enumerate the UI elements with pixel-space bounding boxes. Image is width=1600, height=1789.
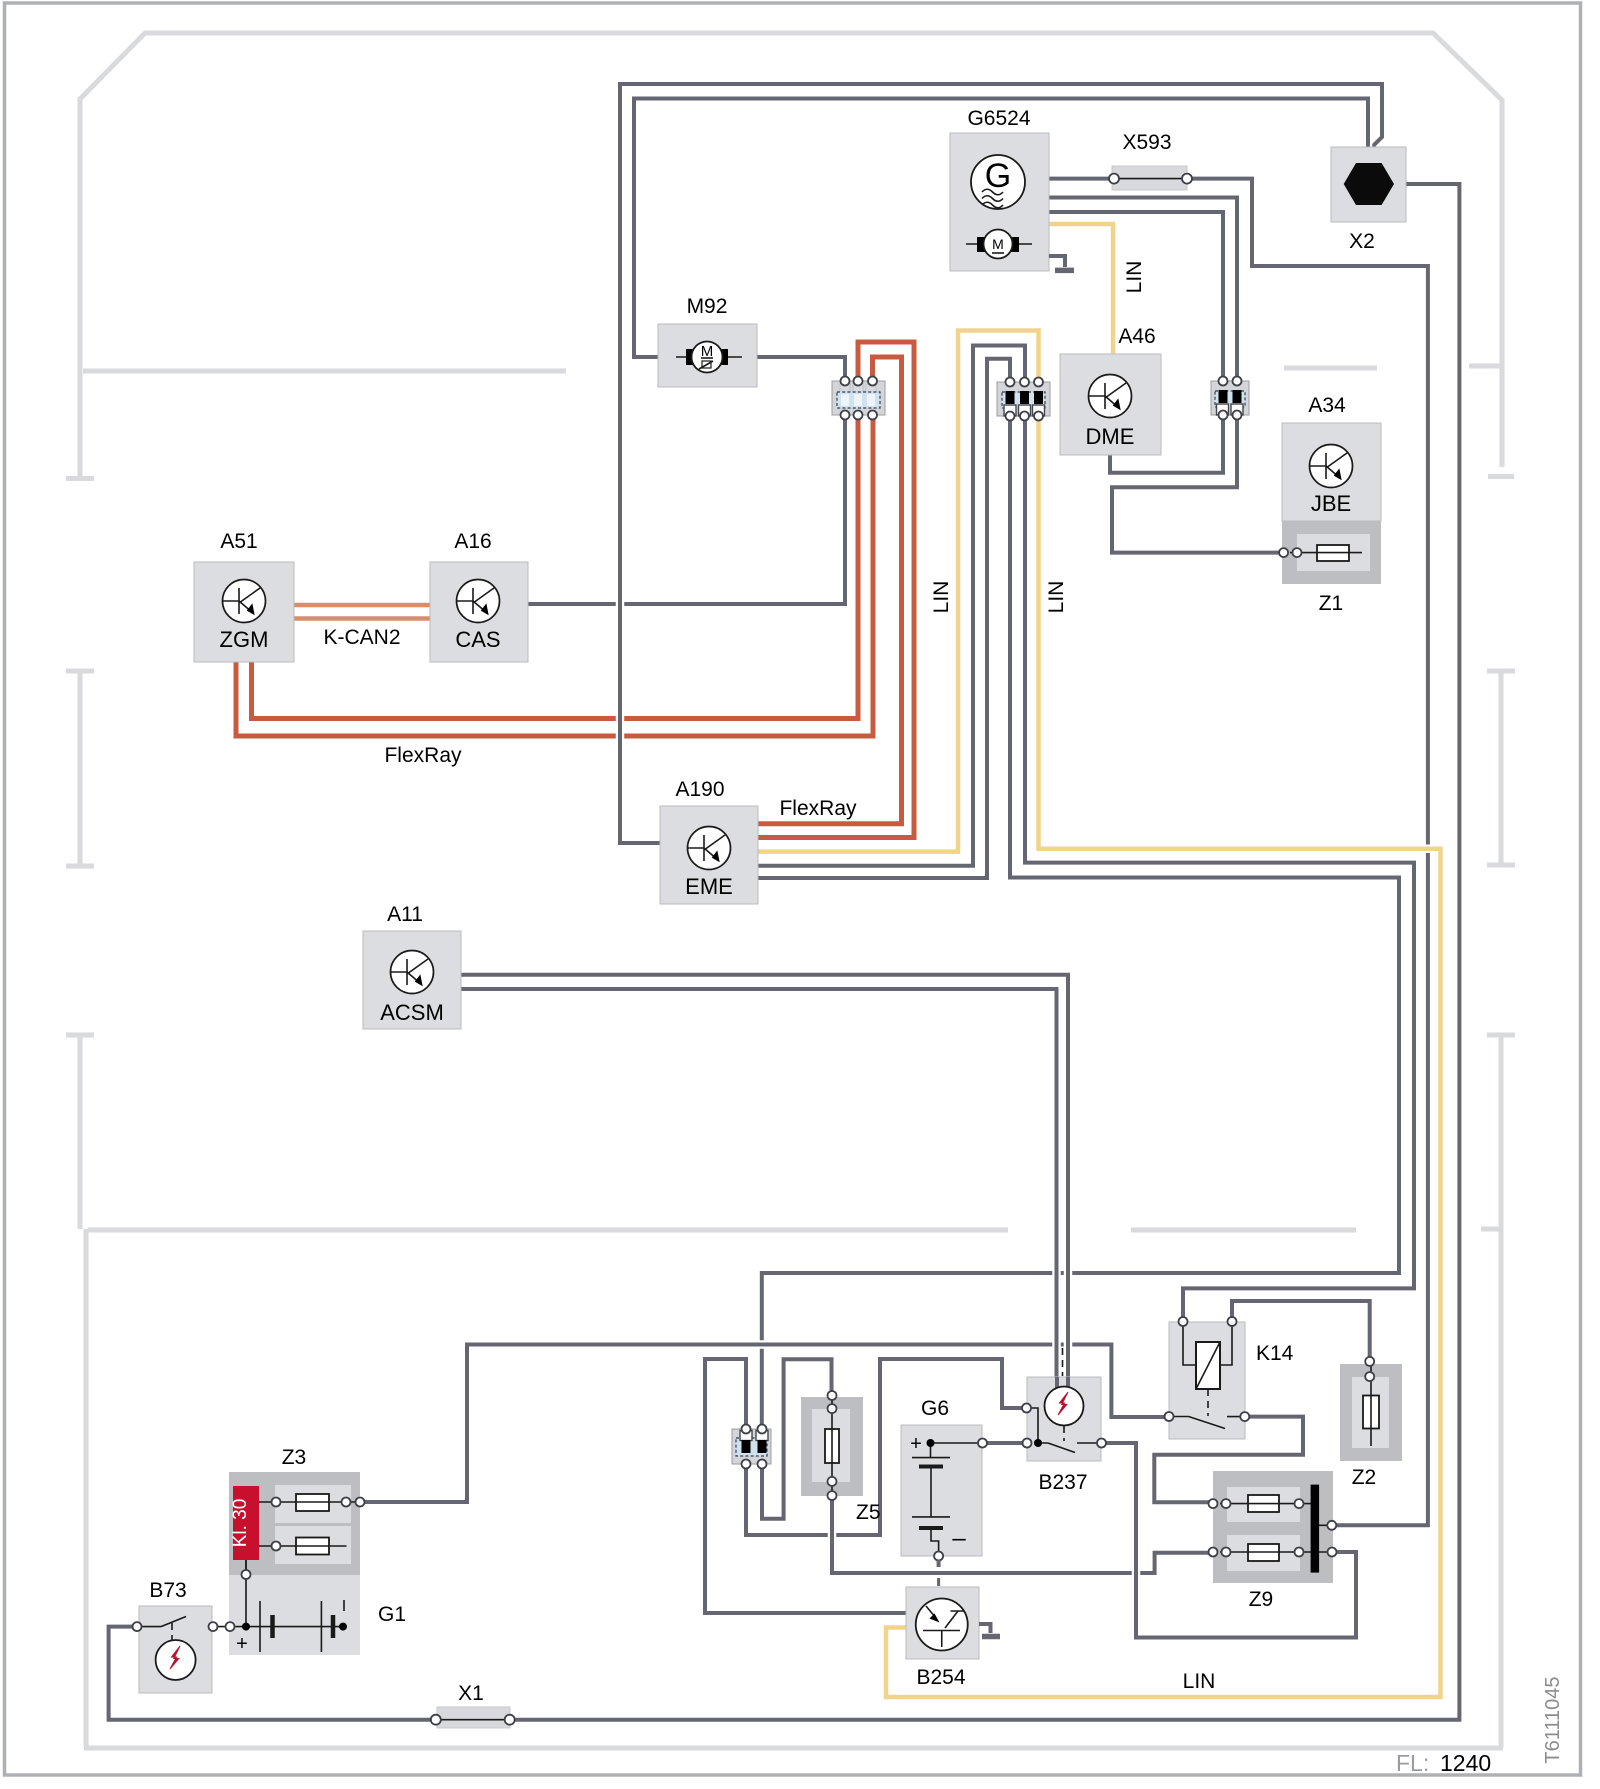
fuse holder Z1 (1279, 521, 1381, 584)
car body outline top (144, 31, 1434, 36)
wire ACSM pair to B237 top (gray) (461, 975, 1068, 1377)
svg-text:LIN: LIN (1045, 581, 1068, 614)
wire K14 right pin to Z2 (gray) (1232, 1301, 1370, 1361)
connector X 2-pin rear (black pins) (732, 1425, 771, 1469)
connector X 3-pin engine (blue) (832, 377, 885, 420)
wire connector to B237 left pin (gray) (746, 1359, 1026, 1535)
ground for G6524 (1049, 256, 1074, 270)
battery G6 (901, 1425, 987, 1561)
car firewall line left (83, 369, 566, 374)
battery safety terminal B237 (1022, 1348, 1106, 1461)
wire X2 to EME outer loop (gray) (620, 84, 1382, 843)
car C-pillar right and rear right side (1481, 1035, 1515, 1748)
wire K-CAN2 ZGM to CAS (orange pair) (294, 605, 430, 619)
battery sensor B254 (906, 1587, 979, 1659)
crash sensor B73 (133, 1606, 235, 1693)
fuse box Z3 with Kl.30 rail (229, 1472, 365, 1622)
svg-text:A16: A16 (454, 530, 491, 553)
svg-text:Z5: Z5 (856, 1501, 881, 1524)
wire connector to B254 (gray) (705, 1359, 906, 1613)
control unit ZGM A51 (194, 562, 294, 662)
svg-text:FlexRay: FlexRay (384, 744, 462, 767)
ground for B254 (979, 1624, 1000, 1637)
svg-text:ZGM: ZGM (220, 627, 269, 652)
control unit DME A46 (1060, 354, 1161, 455)
motor M92 box (658, 324, 757, 387)
svg-text:1240: 1240 (1440, 1750, 1491, 1776)
svg-text:Z9: Z9 (1249, 1588, 1274, 1611)
svg-text:K14: K14 (1256, 1342, 1294, 1365)
wire connector to Z1 fuse (gray) (1112, 415, 1284, 553)
wire CAS to connector (gray) (528, 415, 845, 604)
wire Z3 fuse output to K14 switch (gray) (360, 1345, 1169, 1503)
car cargo floor line right segment (1131, 1228, 1356, 1233)
car cargo floor line left segment (88, 1228, 1008, 1233)
wire LIN G6524 to DME (yellow) (1049, 224, 1113, 354)
wire FlexRay EME pair (red) (758, 342, 914, 838)
fuse holder Z5 (801, 1391, 863, 1500)
car A-pillar right diagonal (1432, 32, 1502, 100)
svg-text:LIN: LIN (1183, 1670, 1216, 1693)
car rear compartment left and bottom (84, 1229, 1503, 1748)
car B-pillar left (66, 671, 94, 866)
svg-text:+: + (236, 1633, 248, 1655)
connector X 2-pin JBE (black pins) (1211, 377, 1249, 420)
wire X593 to Z9 mid pin (gray) (1049, 179, 1428, 1526)
svg-text:Z1: Z1 (1319, 592, 1344, 615)
connector X1 (431, 1707, 515, 1728)
svg-text:T6111045: T6111045 (1542, 1676, 1564, 1763)
svg-text:M: M (992, 236, 1004, 252)
relay K14 (1165, 1317, 1250, 1439)
wire M92 to connector (gray) (757, 357, 845, 381)
mechanical link G6 to B254 (dashed) (937, 1560, 940, 1586)
connector X 3-pin DME (black pins) (997, 378, 1050, 421)
fuse box Z9 with bus bar (1209, 1471, 1337, 1583)
wire connector to Z5 top (gray) (762, 1359, 832, 1518)
control unit JBE A34 (1282, 423, 1381, 521)
wire X2 right down to X1 and B73 (gray) (109, 184, 1460, 1720)
control unit ACSM A11 (363, 931, 461, 1029)
svg-text:B73: B73 (149, 1579, 186, 1602)
control unit CAS A16 (430, 562, 528, 662)
car A-pillar left diagonal (80, 32, 146, 99)
svg-text:G6: G6 (921, 1397, 949, 1420)
svg-text:ACSM: ACSM (380, 1000, 444, 1025)
svg-text:Z3: Z3 (282, 1446, 307, 1469)
car right front pillar (1488, 98, 1514, 477)
svg-text:CAS: CAS (455, 627, 500, 652)
wire B237 right to Z9 lower right pin (gray) (1102, 1443, 1356, 1638)
wire G6 minus stub (gray) (937, 1556, 941, 1567)
fuse holder Z2 (1340, 1357, 1402, 1461)
svg-text:A46: A46 (1118, 325, 1155, 348)
svg-text:DME: DME (1086, 424, 1135, 449)
svg-text:FL:: FL: (1396, 1750, 1429, 1776)
wire LIN EME to B254 (yellow) (758, 331, 1441, 1698)
svg-text:X593: X593 (1122, 131, 1171, 154)
wire connector to DME bottom (gray) (1110, 415, 1223, 473)
control unit EME A190 (660, 806, 758, 904)
wire FlexRay ZGM pair (red) (236, 415, 873, 736)
svg-text:LIN: LIN (1123, 261, 1146, 294)
battery G1 (212, 1560, 360, 1655)
svg-text:A34: A34 (1308, 394, 1346, 417)
wire EME to K14 coil (gray) (758, 346, 1414, 1322)
wire G6524 pair to connector X over JBE (gray) (1049, 198, 1237, 382)
car B-pillar right (1487, 671, 1515, 865)
svg-text:–: – (952, 1525, 966, 1552)
svg-text:Kl. 30: Kl. 30 (230, 1499, 251, 1548)
wire Z5 bottom to Z9 lower fuse (gray) (832, 1496, 1213, 1573)
svg-text:EME: EME (685, 874, 733, 899)
svg-text:G1: G1 (378, 1603, 406, 1626)
generator G6524 box (950, 133, 1049, 271)
wire X2 to M92 inner loop (gray) (634, 99, 1368, 358)
svg-text:A51: A51 (220, 530, 257, 553)
car C-pillar left (66, 1035, 94, 1229)
svg-text:B237: B237 (1038, 1471, 1087, 1494)
svg-text:FlexRay: FlexRay (779, 797, 857, 820)
wire K14 switch to Z9 upper fuse (gray) (1154, 1417, 1303, 1503)
svg-text:G6524: G6524 (967, 107, 1030, 130)
svg-text:K-CAN2: K-CAN2 (323, 626, 400, 649)
connector X593 (1109, 166, 1192, 190)
svg-text:LIN: LIN (930, 581, 953, 614)
svg-text:X1: X1 (458, 1682, 484, 1705)
connector X2 box with hexagon (1331, 147, 1406, 222)
svg-text:+: + (910, 1433, 922, 1455)
car left front pillar (66, 97, 94, 479)
svg-text:M92: M92 (687, 295, 728, 318)
svg-text:A11: A11 (387, 903, 423, 926)
car firewall line right (1284, 366, 1502, 368)
svg-text:JBE: JBE (1311, 491, 1351, 516)
wire EME to connector X bottom (gray) (758, 359, 1399, 1428)
svg-text:Z2: Z2 (1352, 1466, 1377, 1489)
svg-text:B254: B254 (916, 1666, 965, 1689)
wire G6 plus to B237 (gray) (983, 1439, 1028, 1448)
svg-text:X2: X2 (1349, 230, 1375, 253)
svg-text:A190: A190 (675, 778, 724, 801)
